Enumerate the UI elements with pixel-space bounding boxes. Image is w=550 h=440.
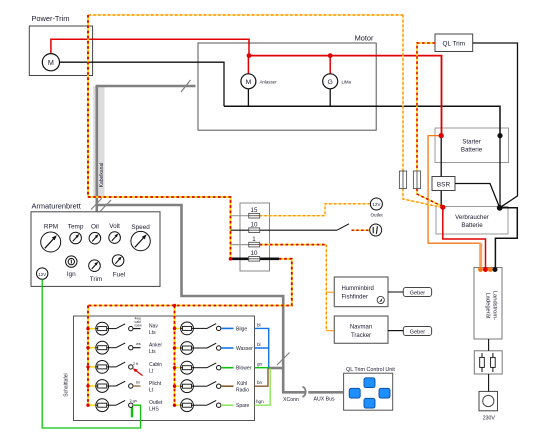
breaker Wasser	[176, 342, 254, 355]
ignition switch Ign	[66, 256, 77, 278]
svg-text:Landstrom-: Landstrom-	[492, 291, 498, 320]
wire bilge blue	[255, 328, 269, 348]
AUX Bus wire	[308, 391, 343, 394]
harness break slash	[181, 80, 191, 92]
wire lima plus stub	[329, 56, 331, 74]
Navman Tracker box	[334, 316, 388, 343]
svg-text:1: 1	[252, 236, 256, 243]
svg-text:230V: 230V	[483, 416, 496, 422]
svg-text:Temp: Temp	[68, 224, 84, 231]
svg-text:ws: ws	[136, 342, 141, 346]
svg-text:Outlet: Outlet	[370, 213, 383, 218]
svg-text:Blower: Blower	[236, 366, 252, 372]
horn symbol	[370, 224, 382, 236]
control unit button right	[379, 388, 390, 398]
orange stub to tracker	[326, 330, 334, 332]
green wire 12V to outlet LHS	[42, 279, 140, 428]
wire harness to panel	[97, 205, 306, 392]
Motor box	[198, 34, 376, 131]
dashed orange drop to fishfinder and tracker	[325, 245, 327, 331]
horn switch lever	[337, 224, 349, 230]
svg-text:Anlasser: Anlasser	[260, 80, 278, 85]
Armaturenbrett box	[31, 202, 160, 287]
dashed orange top bus	[88, 14, 403, 16]
breaker Bilge	[176, 322, 248, 335]
Humminbird Fishfinder box	[334, 277, 388, 307]
230V socket box	[479, 391, 498, 421]
node verbraucher battery minus	[497, 205, 503, 211]
breaker Spare	[176, 399, 250, 412]
gauge Temp	[68, 224, 84, 244]
svg-text:AUX Bus: AUX Bus	[314, 397, 335, 403]
motor M power-trim	[42, 54, 59, 71]
fuse panel box	[240, 203, 270, 271]
wire fuses to socket	[488, 374, 490, 391]
svg-text:BSR: BSR	[437, 182, 451, 189]
svg-text:Ign: Ign	[67, 271, 76, 278]
svg-text:QL Trim Control Unit: QL Trim Control Unit	[346, 367, 395, 373]
Power-Trim box	[29, 14, 92, 76]
svg-text:Oil: Oil	[91, 224, 99, 231]
harness break slash	[100, 200, 111, 212]
svg-text:15: 15	[251, 207, 258, 214]
breaker Blower	[176, 361, 252, 374]
wire tracker to geber	[388, 330, 403, 332]
svg-text:Armaturenbrett: Armaturenbrett	[32, 202, 81, 211]
wire BSR to verbraucher plus	[440, 191, 442, 208]
wire blower green	[255, 367, 269, 369]
node charger red	[483, 267, 488, 272]
svg-text:LHS: LHS	[149, 407, 159, 413]
svg-text:Trim: Trim	[90, 276, 103, 283]
svg-text:Kühl: Kühl	[237, 381, 247, 387]
svg-text:Bilge: Bilge	[236, 326, 247, 332]
control unit button top	[364, 378, 375, 388]
svg-text:10: 10	[251, 250, 258, 257]
svg-text:Volt: Volt	[109, 223, 120, 230]
svg-text:Geber: Geber	[410, 330, 426, 336]
fuse3 input grey	[231, 244, 250, 246]
striped stub to horn	[352, 229, 370, 231]
svg-text:QL Trim: QL Trim	[443, 41, 466, 48]
breaker Outlet LHS	[89, 399, 163, 413]
fuse F4 10A	[249, 250, 260, 261]
Geber box 1	[403, 288, 431, 297]
svg-text:Ladegerät: Ladegerät	[485, 292, 491, 318]
striped bus drop to fuse panel	[88, 15, 231, 259]
node left bus taps	[86, 327, 89, 407]
breaker Plicht Lt	[89, 380, 162, 394]
node fuse bus tap	[229, 257, 233, 261]
svg-text:bn: bn	[136, 380, 140, 384]
svg-text:Radio: Radio	[236, 388, 249, 394]
svg-text:Spare: Spare	[236, 403, 250, 409]
12V source in dashboard	[37, 268, 48, 279]
wire starter plus to BSR	[440, 136, 442, 177]
gauge Oil	[89, 224, 101, 245]
svg-text:bl: bl	[257, 323, 261, 328]
Verbraucher Batterie box	[436, 207, 508, 235]
svg-text:Power-Trim: Power-Trim	[32, 14, 70, 23]
node right bus taps	[173, 304, 176, 407]
svg-text:rpsw: rpsw	[135, 323, 143, 327]
svg-text:G: G	[328, 79, 333, 86]
breaker Kuehl Radio	[176, 380, 250, 394]
svg-text:bn: bn	[257, 380, 263, 385]
svg-text:Anker: Anker	[149, 343, 162, 349]
wire charger to mains fuses	[488, 339, 490, 351]
fuse4 input thick black	[231, 257, 250, 260]
wire lima ground stub	[329, 89, 331, 107]
fuse4 output thick black	[260, 257, 280, 260]
wire starter plus to charger orange	[428, 136, 481, 244]
wire BSR output to junction	[455, 184, 500, 208]
fuse1 output dashed to outlet	[260, 204, 371, 216]
node starter battery plus	[439, 133, 444, 138]
svg-text:12V: 12V	[38, 272, 46, 277]
wire QL trim to junction	[473, 43, 518, 208]
wire power-trim red	[51, 39, 249, 55]
fuse F2 10A	[249, 222, 260, 233]
svg-text:Fishfinder: Fishfinder	[342, 295, 368, 301]
Geber box 2	[403, 327, 431, 336]
orange charger drop	[479, 243, 482, 267]
Kabelkanal duct band	[93, 86, 104, 197]
svg-text:XConn: XConn	[283, 397, 299, 403]
svg-text:M: M	[246, 79, 252, 86]
Starter Batterie box	[435, 128, 509, 163]
wire power-trim motor black	[60, 62, 224, 106]
svg-text:RPM: RPM	[44, 224, 58, 231]
svg-text:10: 10	[251, 222, 258, 229]
wire wasser blue	[255, 348, 269, 368]
red plus bus motor to starter battery	[249, 56, 442, 136]
svg-text:Tracker: Tracker	[351, 333, 371, 339]
mains fuse right	[491, 353, 496, 372]
svg-text:12V: 12V	[372, 202, 381, 207]
gauge Fuel	[112, 255, 125, 279]
svg-text:Lts: Lts	[149, 349, 156, 355]
gauge Volt	[109, 223, 121, 243]
svg-text:Kabelkanal: Kabelkanal	[99, 163, 105, 188]
node charger orange	[478, 267, 483, 272]
harness stub at switch panel wires	[268, 367, 284, 370]
gauge Speed	[131, 224, 150, 251]
Landstrom-Ladegeraet box	[474, 268, 502, 340]
wire harness to motor	[97, 86, 196, 212]
wire kuehl radio brown	[255, 369, 269, 387]
node anlasser plus	[247, 53, 252, 58]
node verbraucher battery plus	[440, 205, 445, 210]
svg-text:Humminbird: Humminbird	[342, 286, 374, 292]
harness break slash	[91, 198, 102, 210]
mains fuse left	[480, 353, 485, 372]
node charger black	[493, 267, 498, 272]
inline fuse on orange drop	[399, 171, 406, 189]
QL Trim box	[435, 34, 473, 52]
BSR relay box	[432, 177, 455, 191]
wire spare light green	[255, 369, 271, 406]
svg-text:Cabin: Cabin	[149, 362, 162, 368]
switch panel box	[74, 316, 255, 421]
svg-text:Fuel: Fuel	[113, 272, 125, 279]
control unit button bottom	[364, 398, 375, 408]
motor M Anlasser	[241, 74, 277, 89]
wire anlasser ground stub	[247, 89, 249, 107]
green stub under outlet switch	[131, 407, 133, 417]
svg-text:Outlet: Outlet	[149, 400, 163, 406]
fuse1 input grey	[231, 215, 250, 217]
orange stub to fishfinder	[326, 291, 334, 293]
QL Trim Control Unit box	[344, 367, 396, 410]
fuse F3 1A	[249, 236, 260, 247]
wire starter minus to junction	[499, 136, 501, 208]
svg-text:Geber: Geber	[410, 291, 426, 297]
inline fuse on striped QL feed	[413, 171, 420, 189]
svg-text:Batterie: Batterie	[461, 147, 483, 154]
svg-text:Lt: Lt	[149, 368, 154, 374]
control unit button left	[349, 388, 360, 398]
svg-text:Batterie: Batterie	[461, 222, 483, 229]
12V outlet symbol	[370, 198, 383, 218]
fuse2 input black	[231, 229, 250, 231]
svg-text:bl: bl	[257, 342, 261, 347]
node lima plus	[328, 53, 333, 58]
svg-text:hgn: hgn	[256, 399, 264, 404]
gauge RPM	[41, 224, 61, 253]
wire junction to charger	[495, 208, 517, 270]
node starter battery minus	[497, 133, 502, 138]
svg-text:Navman: Navman	[350, 325, 372, 331]
breaker Cabin Lt	[89, 361, 162, 376]
wire anlasser plus stub	[247, 56, 249, 74]
svg-text:Schalttafel: Schalttafel	[64, 373, 70, 396]
fuse F1 15A	[249, 207, 260, 218]
XConn connector arc	[303, 387, 306, 398]
compass icon in fishfinder	[377, 296, 384, 303]
svg-text:LiMa: LiMa	[342, 80, 352, 85]
striped wire QL trim feed	[417, 43, 443, 207]
generator G LiMa	[323, 74, 352, 89]
svg-text:Wasser: Wasser	[236, 346, 253, 352]
black ground bus motor	[224, 106, 500, 135]
svg-text:Speed: Speed	[131, 224, 150, 231]
svg-text:2 gn: 2 gn	[130, 399, 137, 403]
breaker Nav Lts	[89, 316, 158, 336]
svg-text:Starter: Starter	[462, 139, 481, 146]
wire verbraucher plus to charger	[443, 207, 486, 269]
svg-text:Lt: Lt	[149, 387, 154, 393]
svg-text:Verbraucher: Verbraucher	[455, 214, 489, 221]
gauge Trim	[89, 260, 103, 283]
fuse2 output black to horn switch	[260, 229, 338, 231]
svg-text:gn: gn	[257, 362, 263, 367]
svg-text:Lts: Lts	[149, 330, 156, 336]
striped wire to switch panel buses	[88, 259, 292, 405]
fuse3 output striped to electronics	[260, 244, 327, 246]
svg-text:Nav: Nav	[149, 324, 158, 330]
node charger orange 2	[488, 267, 493, 272]
dashed orange wire top bus drop	[403, 15, 443, 208]
harness break slash	[277, 353, 290, 366]
svg-text:M: M	[48, 58, 54, 67]
wire fishfinder to geber	[388, 291, 403, 293]
svg-text:Plicht: Plicht	[149, 381, 162, 387]
breaker Anker Lts	[89, 341, 162, 355]
mains fuse box	[474, 351, 502, 374]
svg-text:Motor: Motor	[355, 34, 374, 43]
